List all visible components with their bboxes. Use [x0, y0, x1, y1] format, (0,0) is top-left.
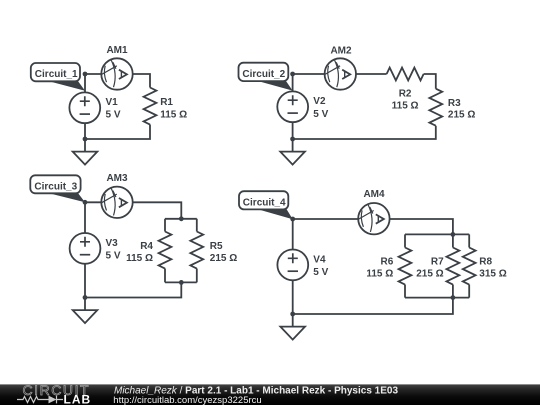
svg-text:5 V: 5 V: [106, 110, 121, 121]
svg-text:http://circuitlab.com/cyezsp32: http://circuitlab.com/cyezsp3225rcu: [113, 395, 261, 405]
svg-text:315 Ω: 315 Ω: [479, 268, 506, 279]
svg-text:215 Ω: 215 Ω: [210, 253, 237, 264]
svg-text:115 Ω: 115 Ω: [392, 101, 419, 112]
svg-text:R4: R4: [140, 241, 153, 252]
svg-text:115 Ω: 115 Ω: [126, 253, 153, 264]
svg-text:R5: R5: [210, 241, 223, 252]
svg-text:Circuit_3: Circuit_3: [34, 181, 77, 192]
svg-text:Circuit_2: Circuit_2: [242, 69, 285, 80]
svg-text:5 V: 5 V: [313, 109, 328, 120]
svg-text:R3: R3: [448, 98, 461, 109]
svg-text:215 Ω: 215 Ω: [416, 268, 443, 279]
svg-text:AM3: AM3: [106, 173, 128, 184]
svg-text:5 V: 5 V: [313, 267, 328, 278]
svg-text:LAB: LAB: [64, 393, 92, 405]
svg-text:115 Ω: 115 Ω: [366, 268, 393, 279]
svg-text:AM4: AM4: [363, 189, 385, 200]
svg-text:R7: R7: [431, 257, 444, 268]
svg-text:AM2: AM2: [330, 45, 352, 56]
svg-text:R1: R1: [160, 97, 173, 108]
svg-text:215 Ω: 215 Ω: [448, 110, 475, 121]
svg-text:Circuit_4: Circuit_4: [243, 197, 286, 208]
svg-text:V4: V4: [313, 255, 326, 266]
svg-text:5 V: 5 V: [106, 251, 121, 262]
svg-text:R6: R6: [381, 257, 394, 268]
svg-text:V2: V2: [313, 96, 326, 107]
svg-text:V1: V1: [106, 97, 119, 108]
svg-text:115 Ω: 115 Ω: [160, 109, 187, 120]
svg-text:V3: V3: [106, 238, 119, 249]
svg-text:R8: R8: [479, 257, 492, 268]
svg-text:AM1: AM1: [106, 45, 128, 56]
svg-text:R2: R2: [399, 88, 412, 99]
svg-text:Circuit_1: Circuit_1: [35, 69, 78, 80]
